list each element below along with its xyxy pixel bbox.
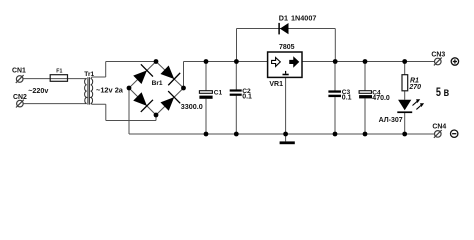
wire fuse to transformer primary top [51,78,87,80]
node R1 top [402,59,407,64]
wire C1 bottom lead [205,99,207,134]
connector CN2 [16,100,24,108]
svg-text:1N4007: 1N4007 [291,14,316,23]
svg-text:~12v 2a: ~12v 2a [96,86,124,95]
node bridge bottom vertex [154,113,159,118]
svg-text:CN2: CN2 [13,94,27,101]
node LED bottom [402,132,407,137]
wire C1 top lead [205,62,207,91]
capacitor C3 [328,90,341,97]
svg-text:Br1: Br1 [152,80,163,87]
capacitor C1 polarized [199,91,212,99]
bridge rectifier Br1 diode top-left [131,64,153,86]
svg-text:АЛ-307: АЛ-307 [379,117,403,124]
wire bridge bottom vertex stub [155,115,157,121]
voltage regulator U VR1 7805 [268,52,302,77]
node bridge left vertex [127,86,132,91]
bridge rectifier Br1 diode top-right [159,64,181,86]
svg-text:~220v: ~220v [28,86,48,95]
resistor R1 [402,75,408,91]
svg-text:CN4: CN4 [432,124,446,131]
wire R1 to LED [404,91,406,100]
wire CN1 to fuse [23,78,51,80]
capacitor C4 polarized [359,91,372,99]
svg-text:3300.0: 3300.0 [181,102,203,111]
wire bridge diamond edges [129,62,184,116]
svg-text:270: 270 [408,84,421,91]
wire to bridge bottom vertex [106,120,156,122]
connector CN4 [434,130,442,138]
node C2 D1 top [234,59,239,64]
node C1 bottom [204,132,209,137]
wire C3 top lead [334,62,336,91]
node bridge right vertex [181,86,186,91]
svg-text:D1: D1 [279,14,288,23]
wire C4 bottom lead [364,98,366,134]
bridge rectifier Br1 diode bottom-left [131,90,153,112]
node ground junction [283,132,288,137]
bridge rectifier Br1 diode bottom-right [159,91,181,113]
node C2 bottom [234,132,239,137]
ground symbol [280,141,295,144]
wire to bridge top vertex [106,61,156,63]
svg-text:F1: F1 [56,68,62,74]
wire bottom ground rail [129,133,435,135]
wire secondary bottom drop [105,104,107,120]
node C4 bottom [363,132,368,137]
LED АЛ-307 [397,99,424,113]
wire secondary top lead [91,77,106,79]
node C4 top [363,59,368,64]
node C3 bottom [333,132,338,137]
svg-text:7805: 7805 [279,44,295,51]
wire D1 right riser [334,29,336,62]
wire C2 bottom lead [235,96,237,134]
capacitor C2 [230,89,242,95]
svg-text:CN3: CN3 [431,51,445,58]
wire C2 top lead [235,62,237,90]
svg-text:0.1: 0.1 [342,94,352,101]
svg-text:CN1: CN1 [12,67,26,74]
transformer Tr1 [85,77,93,104]
wire ground stem [285,134,287,141]
node C3 D1 top [333,59,338,64]
svg-text:470.0: 470.0 [372,95,390,102]
wire D1 left riser [236,29,238,62]
svg-text:C1: C1 [214,89,223,96]
connector CN1 [16,75,24,83]
wire bridge left vertex to ground rail [128,88,130,134]
wire top positive rail right of regulator [302,61,435,63]
node C1 top [204,59,209,64]
wire bridge right vertex riser [183,62,185,89]
fuse F1 [50,75,67,82]
wire secondary top riser [105,62,107,78]
wire regulator ground pin [285,75,287,134]
wire C4 top lead [364,62,366,91]
svg-text:Tr1: Tr1 [84,71,94,78]
wire LED to ground rail [404,113,406,134]
wire C3 bottom lead [334,97,336,134]
svg-text:5 в: 5 в [436,86,449,99]
diode D1 [279,23,288,35]
wire CN2 to transformer primary bottom [23,103,87,105]
svg-text:VR1: VR1 [269,81,283,88]
connector CN3 [434,58,442,66]
wire D1 top line [237,28,336,30]
wire secondary bottom lead [91,103,106,106]
polarity minus symbol [451,130,458,137]
svg-text:0.1: 0.1 [242,93,252,100]
node bridge top vertex [154,59,159,64]
wire R1 top lead [404,62,406,75]
wire top positive rail left of regulator [184,61,268,63]
polarity plus symbol [451,58,458,65]
